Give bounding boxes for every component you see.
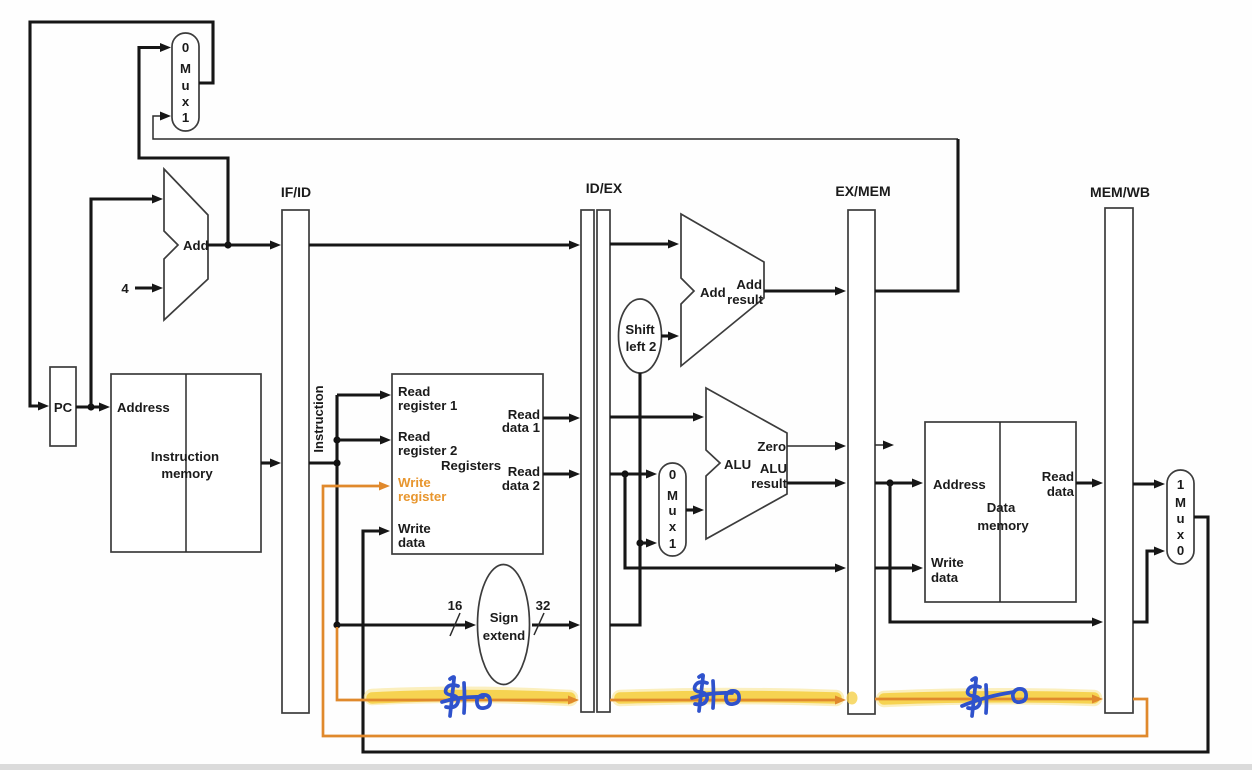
svg-text:Add: Add	[700, 285, 726, 300]
arrowhead into mux M1 input 1	[160, 112, 171, 121]
svg-text:Instruction: Instruction	[311, 385, 326, 452]
arrowhead into ALU bottom input	[693, 506, 704, 515]
svg-text:Instruction: Instruction	[151, 449, 219, 464]
svg-text:EX/MEM: EX/MEM	[835, 183, 890, 199]
wire: ALU result down and to MEM/WB	[890, 483, 1094, 622]
wire: adder A2 result to EX/MEM	[764, 289, 837, 292]
orange arrowhead into EX/MEM	[835, 696, 846, 705]
svg-text:M: M	[1175, 495, 1186, 510]
wire: instruction memory output to IF/ID	[261, 461, 272, 464]
wire: instruction immediate to sign extend	[337, 623, 467, 626]
wire: ID/EX read data 1 to ALU	[610, 415, 695, 418]
wire: shift left 2 output to adder A2	[661, 334, 670, 337]
svg-text:data 1: data 1	[502, 420, 540, 435]
wire: mux M3 output write-back loop to write data	[363, 517, 1208, 752]
svg-text:Read: Read	[398, 384, 430, 399]
arrowhead into EX/MEM (read data 2)	[835, 564, 846, 573]
pipeline register MEM/WB	[1105, 208, 1133, 713]
svg-text:Add: Add	[183, 238, 209, 253]
svg-text:ID/EX: ID/EX	[586, 180, 623, 196]
svg-text:M: M	[180, 61, 191, 76]
bottom gray strip	[0, 764, 1252, 770]
wire: ALU result to EX/MEM	[787, 481, 837, 484]
svg-text:Write: Write	[398, 521, 431, 536]
wire: ID/EX PC+4 to adder A2	[610, 242, 670, 245]
svg-text:4: 4	[121, 281, 129, 296]
arrowhead into adder A2 top input	[668, 240, 679, 249]
svg-text:Shift: Shift	[625, 322, 655, 337]
wire: PC tap up to adder A1 top input	[91, 199, 154, 407]
svg-text:16: 16	[448, 598, 463, 613]
wire: EX/MEM ALU result to data memory address	[875, 481, 914, 484]
yellow highlighter blob at EX/MEM	[847, 692, 858, 705]
handwritten $t0 annotation 2	[692, 675, 739, 711]
junction: sign-extended tap to mux M2	[636, 539, 643, 546]
svg-text:x: x	[182, 94, 190, 109]
wire: read data 2 down and to EX/MEM	[625, 474, 837, 568]
arrowhead into PC	[38, 402, 49, 411]
svg-text:M: M	[667, 488, 678, 503]
svg-text:1: 1	[182, 110, 189, 125]
svg-text:ALU: ALU	[724, 457, 751, 472]
svg-text:Address: Address	[117, 400, 170, 415]
orange arrowhead into register file write register	[379, 482, 390, 491]
arrowhead into data memory write data	[912, 564, 923, 573]
sign extend ellipse	[478, 565, 530, 685]
mux M2 (ALU operand B)	[659, 463, 686, 556]
orange wire: MEM/WB return loop to write register input	[323, 486, 1147, 736]
wire: PC+4 tap up to mux M1 input 0	[139, 48, 228, 246]
svg-text:register 2: register 2	[398, 443, 457, 458]
wire: IF/ID PC+4 to ID/EX	[309, 243, 571, 246]
arrowhead into mux M3 input 1	[1154, 480, 1165, 489]
arrowhead into ALU top input	[693, 413, 704, 422]
arrowhead into mux M2 input 1	[646, 539, 657, 548]
wire: mux M2 output to ALU	[686, 508, 695, 511]
arrowhead into sign extend	[465, 621, 476, 630]
arrowhead into instruction memory	[99, 403, 110, 412]
svg-text:u: u	[181, 78, 189, 93]
arrowhead into EX/MEM (ALU result)	[835, 479, 846, 488]
svg-text:1: 1	[1177, 477, 1184, 492]
yellow highlighter segment 3	[884, 696, 1094, 699]
wire: instruction to read register 1	[337, 393, 382, 396]
arrowhead into EX/MEM (add result)	[835, 287, 846, 296]
svg-text:u: u	[668, 503, 676, 518]
junction: instruction bus at read register 2	[333, 436, 340, 443]
wire: sign-extended to mux M2 input 1	[640, 541, 648, 544]
yellow highlighter segment 2	[620, 696, 836, 698]
adder A1 (PC+4)	[164, 169, 208, 320]
arrowhead into ID/EX (read data 2)	[569, 470, 580, 479]
handwritten $t0 annotation 3	[962, 678, 1026, 716]
svg-text:Address: Address	[933, 477, 986, 492]
arrowhead into mux M3 input 0	[1154, 547, 1165, 556]
arrowhead into adder A2 bottom input	[668, 332, 679, 341]
svg-text:data: data	[398, 535, 426, 550]
svg-text:Add: Add	[736, 277, 762, 292]
adder A2 (branch target)	[681, 214, 764, 366]
svg-text:extend: extend	[483, 628, 526, 643]
ALU	[706, 388, 787, 539]
arrowhead into data memory address	[912, 479, 923, 488]
svg-text:Write: Write	[931, 555, 964, 570]
arrowhead into adder A1 bottom input	[152, 284, 163, 293]
svg-text:ALU: ALU	[760, 461, 787, 476]
svg-text:x: x	[1177, 527, 1185, 542]
orange arrowhead into MEM/WB	[1092, 695, 1103, 704]
svg-text:Write: Write	[398, 475, 431, 490]
svg-text:u: u	[1176, 511, 1184, 526]
arrowhead into mux M1 input 0	[160, 43, 171, 52]
wire: adder A1 output to IF/ID	[208, 243, 272, 246]
svg-text:Read: Read	[508, 464, 540, 479]
PC register	[50, 367, 76, 446]
wire: read data 1 to ID/EX	[543, 416, 571, 419]
svg-text:0: 0	[1177, 543, 1184, 558]
arrowhead into IF/ID (instruction)	[270, 459, 281, 468]
wire: mux M1 output loop to PC	[30, 22, 213, 406]
bus width slash 16	[450, 613, 460, 636]
wire: MEM/WB read data to mux M3 input 1	[1133, 482, 1156, 485]
junction: instruction bus main	[333, 459, 340, 466]
wire: read data 2 to ID/EX	[543, 472, 571, 475]
svg-text:x: x	[669, 519, 677, 534]
wire: EX/MEM zero stub (thin)	[875, 444, 885, 446]
svg-text:Data: Data	[987, 500, 1016, 515]
wire: sign extend output to ID/EX	[532, 623, 571, 626]
wire: EX/MEM branch target out to top loop	[875, 139, 958, 291]
wire: IF/ID instruction bus to register file	[309, 461, 337, 464]
svg-text:register: register	[398, 489, 446, 504]
wire: PC to instruction memory address	[76, 405, 100, 408]
junction: PC output tap	[87, 403, 94, 410]
data memory internal divider	[999, 422, 1001, 602]
arrowhead into IF/ID (PC+4)	[270, 241, 281, 250]
svg-text:PC: PC	[54, 400, 73, 415]
pipeline register EX/MEM	[848, 210, 875, 714]
svg-text:memory: memory	[161, 466, 213, 481]
arrowhead into ID/EX (read data 1)	[569, 414, 580, 423]
arrowhead into read register 2	[380, 436, 391, 445]
wire: EX/MEM read data 2 to data memory write data	[875, 566, 914, 569]
wire: branch target from EX/MEM up and across (thin run)	[153, 116, 958, 139]
wire: instruction bus vertical	[335, 395, 338, 625]
mux M3 (write-back)	[1167, 470, 1194, 564]
arrowhead of zero stub	[883, 441, 894, 450]
junction: ALU result tap	[886, 479, 893, 486]
svg-text:0: 0	[182, 40, 189, 55]
svg-text:data: data	[931, 570, 959, 585]
shift left 2 ellipse	[619, 299, 662, 373]
arrowhead into MEM/WB (read data)	[1092, 479, 1103, 488]
pipeline register IF/ID	[282, 210, 309, 713]
svg-text:32: 32	[536, 598, 551, 613]
svg-text:left 2: left 2	[626, 339, 657, 354]
arrowhead into register file write data	[379, 527, 390, 536]
arrowhead into adder A1 top input	[152, 195, 163, 204]
svg-text:result: result	[727, 292, 764, 307]
wire: ID/EX sign-extended to shift left 2 riser	[610, 373, 640, 625]
registers box	[392, 374, 543, 554]
arrowhead into read register 1	[380, 391, 391, 400]
svg-text:result: result	[751, 476, 788, 491]
handwritten $t0 annotation 1	[442, 677, 490, 716]
arrowhead into ID/EX (PC+4)	[569, 241, 580, 250]
instruction memory internal divider	[185, 374, 187, 552]
arrowhead into mux M2 input 0	[646, 470, 657, 479]
wire: MEM/WB ALU result to mux M3 input 0	[1133, 551, 1156, 622]
svg-text:IF/ID: IF/ID	[281, 184, 311, 200]
wire: instruction to read register 2	[337, 438, 382, 441]
svg-text:data 2: data 2	[502, 478, 540, 493]
svg-text:Read: Read	[1042, 469, 1074, 484]
svg-text:Read: Read	[398, 429, 430, 444]
mux M1 (PC source)	[172, 33, 199, 131]
svg-text:MEM/WB: MEM/WB	[1090, 184, 1150, 200]
arrowhead into EX/MEM (zero)	[835, 442, 846, 451]
data memory box	[925, 422, 1076, 602]
svg-text:Zero: Zero	[757, 439, 786, 454]
svg-text:register 1: register 1	[398, 398, 457, 413]
svg-text:0: 0	[669, 467, 676, 482]
arrowhead into ID/EX (sign extended)	[569, 621, 580, 630]
bus width slash 32	[534, 613, 544, 635]
arrowhead into MEM/WB (ALU result)	[1092, 618, 1103, 627]
pipeline register ID/EX right bar	[597, 210, 610, 712]
orange wire: EX/MEM to MEM/WB (write register number)	[875, 698, 1094, 701]
yellow highlighter segment 1	[372, 695, 570, 698]
wire: ALU zero to EX/MEM (thin)	[787, 445, 837, 447]
svg-text:1: 1	[669, 536, 676, 551]
svg-text:Sign: Sign	[490, 610, 519, 625]
wire: data memory read data to MEM/WB	[1076, 481, 1094, 484]
orange arrowhead into ID/EX	[568, 696, 579, 705]
orange wire: write register field from instruction bus down	[337, 627, 570, 700]
wire: constant 4 into adder A1	[135, 286, 154, 289]
svg-text:memory: memory	[977, 518, 1029, 533]
svg-text:Registers: Registers	[441, 458, 501, 473]
junction: read data 2 tap	[621, 470, 628, 477]
orange wire: ID/EX to EX/MEM (write register number)	[610, 699, 837, 702]
junction: PC+4 tap to mux M1	[224, 241, 231, 248]
wire: ID/EX read data 2 to mux M2 input 0	[610, 472, 648, 475]
pipeline register ID/EX left bar	[581, 210, 594, 712]
junction: instruction bus at sign extend tap	[333, 621, 340, 628]
svg-text:data: data	[1047, 484, 1075, 499]
instruction memory box	[111, 374, 261, 552]
